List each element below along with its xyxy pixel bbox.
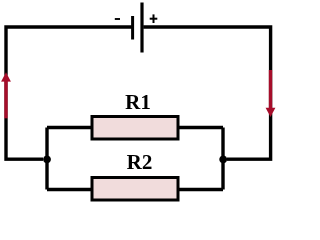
svg-text:R2: R2 xyxy=(127,150,153,174)
svg-text:R1: R1 xyxy=(125,90,151,114)
